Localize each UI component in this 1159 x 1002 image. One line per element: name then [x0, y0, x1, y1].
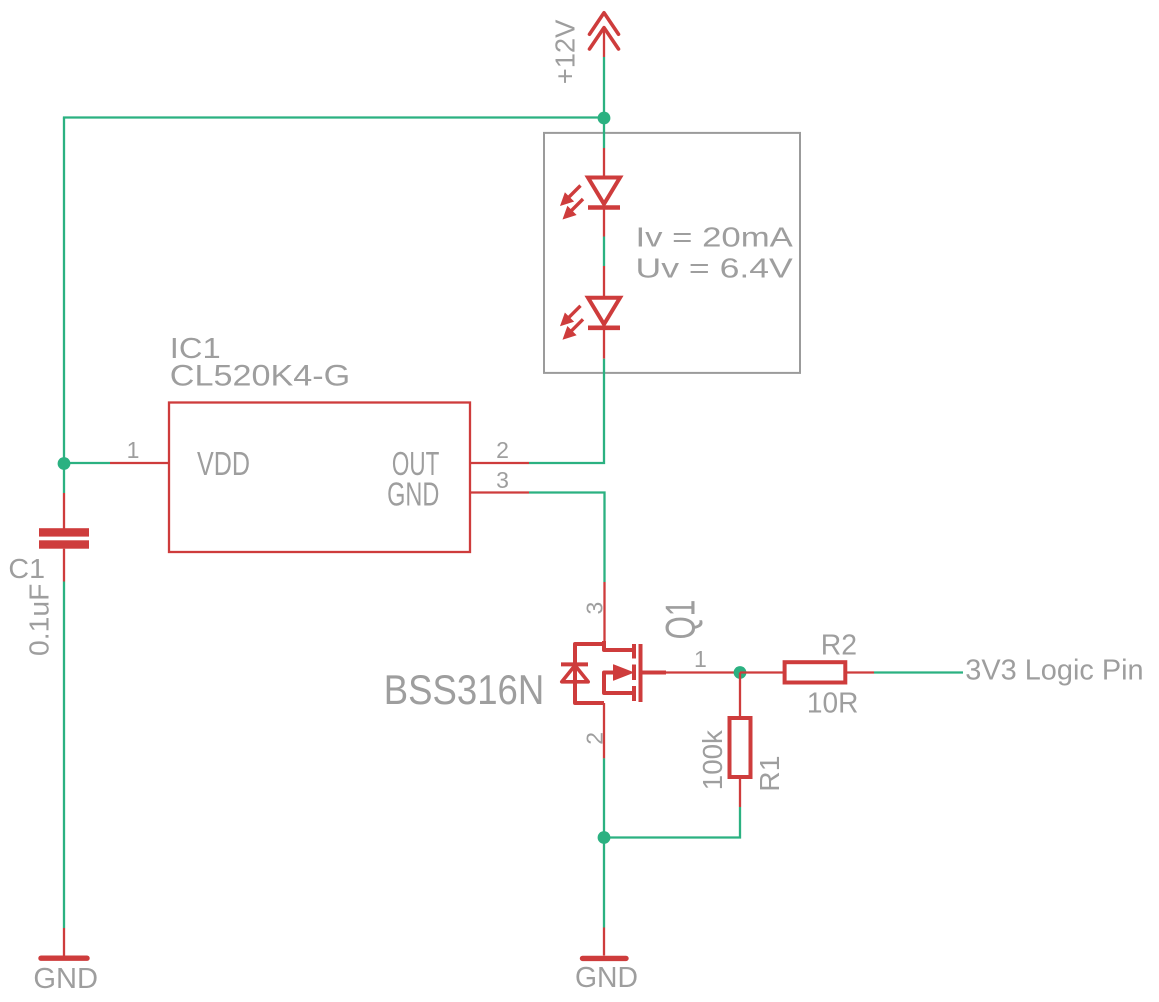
svg-text:GND: GND [387, 476, 439, 513]
LED D1 [588, 178, 620, 208]
svg-text:Iv = 20mA: Iv = 20mA [636, 221, 794, 252]
svg-text:2: 2 [496, 437, 509, 463]
LED D2 [588, 298, 620, 328]
svg-text:BSS316N: BSS316N [384, 666, 544, 713]
svg-text:2: 2 [582, 732, 608, 745]
svg-text:3V3 Logic Pin: 3V3 Logic Pin [965, 655, 1143, 687]
transistor Q1 BSS316N [561, 641, 666, 703]
wire between LEDs [603, 237, 605, 267]
wire R1 to gnd net [604, 807, 740, 838]
svg-text:1: 1 [127, 437, 140, 463]
pin 3 stub [470, 491, 529, 493]
Q1 drain pin stub [603, 582, 605, 646]
svg-text:Q1: Q1 [657, 600, 704, 640]
LED D2 emission arrows [562, 306, 583, 338]
wire LED2 to OUT net [529, 359, 604, 463]
svg-text:3: 3 [582, 602, 608, 615]
R2 left stub [740, 671, 783, 673]
LED2 pin stub bottom [603, 328, 605, 358]
ground left [41, 956, 87, 961]
capacitor C1 [39, 528, 89, 549]
capacitor C1 stub top [63, 493, 65, 529]
svg-text:R1: R1 [754, 756, 785, 792]
junction C1 node [58, 457, 71, 470]
IC U1 box [169, 403, 470, 553]
Q1 gate pin stub [666, 671, 737, 673]
R1 top stub [739, 673, 741, 717]
svg-text:GND: GND [575, 962, 638, 994]
junction at +12V node [598, 112, 611, 125]
+12V supply symbol [590, 13, 619, 49]
resistor R1 [730, 718, 751, 777]
center GND stub [603, 928, 605, 956]
left GND stub [63, 928, 65, 956]
LED1 pin stub bottom [603, 208, 605, 237]
resistor R2 [785, 662, 846, 682]
wire junction to LED1 [603, 118, 605, 149]
R2 right stub [847, 671, 874, 673]
Q1 source pin stub [603, 703, 605, 758]
svg-text:R2: R2 [821, 630, 857, 662]
svg-text:100k: 100k [697, 729, 728, 790]
wire top horizontal [63, 116, 604, 118]
LED module box [544, 133, 800, 373]
LED1 pin stub top [603, 148, 605, 177]
wire C1 node to pin1 [64, 462, 110, 464]
svg-text:+12V: +12V [550, 19, 581, 84]
svg-text:0.1uF: 0.1uF [24, 584, 55, 656]
svg-text:10R: 10R [807, 688, 859, 720]
svg-text:VDD: VDD [197, 445, 250, 482]
wire +12V to junction [603, 57, 605, 118]
svg-text:1: 1 [694, 646, 707, 672]
wire pin3 to Q1 drain [529, 493, 605, 583]
pin 1 stub [110, 462, 169, 464]
svg-text:GND: GND [33, 963, 98, 995]
junction gnd node [598, 831, 611, 844]
wire R2 to logic pin [874, 671, 963, 673]
wire left vertical lower [63, 582, 65, 929]
LED2 pin stub top [603, 266, 605, 298]
pin 2 stub [470, 462, 529, 464]
junction gate node [734, 666, 747, 679]
wire left vertical upper [63, 118, 65, 494]
LED D1 emission arrows [562, 186, 583, 218]
R1 bottom stub [739, 779, 741, 807]
ground center [583, 956, 627, 961]
svg-text:3: 3 [496, 467, 509, 493]
capacitor C1 stub bottom [63, 549, 65, 582]
+12V pin stub [603, 27, 605, 57]
svg-text:C1: C1 [8, 553, 45, 584]
wire Q1 source down [603, 758, 605, 927]
svg-text:CL520K4-G: CL520K4-G [170, 360, 350, 393]
svg-text:Uv = 6.4V: Uv = 6.4V [636, 252, 794, 283]
